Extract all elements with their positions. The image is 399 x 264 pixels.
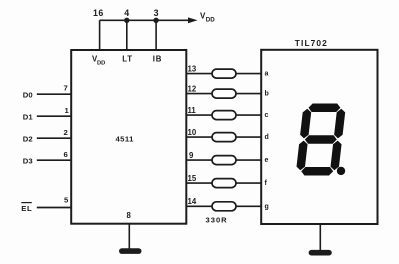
pin label a	[265, 71, 269, 78]
pin number 4	[124, 8, 129, 18]
svg-text:14: 14	[188, 197, 197, 206]
pin label f	[265, 180, 268, 187]
svg-text:16: 16	[93, 8, 104, 18]
wire resistor R5 to segment e	[236, 159, 261, 161]
wire segment f (pin 15 to resistor)	[186, 182, 212, 184]
wire segment c (pin 11 to resistor)	[186, 114, 212, 116]
wire resistor R7 to segment g	[236, 205, 261, 207]
svg-text:c: c	[265, 112, 269, 119]
wire D0	[37, 93, 71, 95]
IC U1 4511 body	[71, 50, 186, 224]
svg-text:1: 1	[65, 106, 70, 115]
wire pin 3 (IB) to VDD rail	[155, 20, 157, 50]
resistor R3	[212, 111, 236, 120]
svg-text:d: d	[265, 134, 269, 141]
wire D2	[37, 137, 71, 139]
pin label e	[265, 157, 269, 164]
svg-text:EL: EL	[21, 204, 32, 213]
svg-text:9: 9	[189, 151, 194, 160]
svg-text:DD: DD	[206, 16, 215, 23]
input D3 label	[23, 156, 33, 165]
pin number 5	[64, 196, 69, 205]
resistor R6	[212, 179, 236, 188]
resistor R5	[212, 156, 236, 165]
input D0 label	[23, 90, 33, 99]
pin number 9	[189, 151, 194, 160]
svg-text:13: 13	[188, 64, 197, 73]
svg-text:D2: D2	[23, 134, 33, 143]
wire pin 16 to VDD rail	[99, 20, 101, 50]
svg-text:12: 12	[188, 84, 197, 93]
junction dot node VDD-IB	[153, 18, 158, 23]
pin label IB inside U1	[153, 54, 162, 63]
svg-text:a: a	[265, 71, 269, 78]
svg-text:D0: D0	[23, 90, 33, 99]
wire segment d (pin 10 to resistor)	[186, 136, 212, 138]
pin number 6	[64, 150, 68, 159]
pin number 12	[188, 84, 197, 93]
svg-text:IB: IB	[153, 54, 162, 63]
svg-text:b: b	[265, 91, 269, 98]
svg-text:LT: LT	[122, 54, 133, 63]
pin label b	[265, 91, 269, 98]
junction dot node VDD-LT	[124, 18, 129, 23]
VDD arrow head	[188, 17, 198, 23]
wire segment g (pin 14 to resistor)	[186, 205, 212, 207]
resistor R4	[212, 133, 236, 142]
svg-text:g: g	[265, 203, 269, 210]
pin label VDD inside U1	[92, 55, 105, 67]
svg-text:DD: DD	[97, 60, 105, 66]
wire resistor R2 to segment b	[236, 93, 261, 95]
wire D3	[37, 159, 71, 161]
pin label g	[265, 203, 269, 210]
input EL label with overline	[21, 203, 32, 213]
svg-text:330R: 330R	[206, 216, 228, 225]
wire EL	[37, 207, 71, 209]
pin number 13	[188, 64, 197, 73]
wire pin 4 (LT) to VDD rail	[126, 20, 128, 50]
svg-text:3: 3	[154, 8, 159, 18]
svg-text:TIL702: TIL702	[295, 38, 328, 48]
wire segment a (pin 13 to resistor)	[186, 73, 212, 75]
pin number 1	[65, 106, 70, 115]
resistor R1	[212, 69, 236, 78]
decimal point DP	[337, 167, 345, 175]
IC U1 label 4511	[116, 135, 135, 144]
pin number 2	[64, 128, 68, 137]
pin number 7	[64, 84, 68, 93]
value label 330R	[206, 216, 228, 225]
svg-text:7: 7	[64, 84, 68, 93]
wire segment e (pin 9 to resistor)	[186, 159, 212, 161]
pin label c	[265, 112, 269, 119]
wire display common to ground	[319, 224, 321, 251]
ground symbol U1	[119, 248, 142, 254]
resistor R2	[212, 89, 236, 98]
wire resistor R4 to segment d	[236, 136, 261, 138]
seven segment digit 8 with decimal point	[295, 104, 346, 176]
svg-text:8: 8	[127, 211, 132, 220]
pin number 8	[127, 211, 132, 220]
ground symbol U2	[309, 250, 332, 256]
display U2 TIL702 body	[261, 50, 377, 224]
svg-text:2: 2	[64, 128, 68, 137]
wire pin 8 to ground	[128, 224, 130, 249]
input D2 label	[23, 134, 33, 143]
svg-text:10: 10	[188, 128, 197, 137]
VDD top rail wire	[100, 19, 190, 21]
resistor R7	[212, 202, 236, 211]
pin number 10	[188, 128, 197, 137]
wire resistor R6 to segment f	[236, 182, 261, 184]
pin label d	[265, 134, 269, 141]
pin number 15	[188, 174, 197, 183]
net label VDD	[200, 12, 215, 24]
wire segment b (pin 12 to resistor)	[186, 93, 212, 95]
svg-text:4511: 4511	[116, 135, 135, 144]
pin number 14	[188, 197, 197, 206]
pin number 16	[93, 8, 104, 18]
svg-text:4: 4	[124, 8, 129, 18]
svg-text:11: 11	[188, 106, 197, 115]
display U2 label TIL702	[295, 38, 328, 48]
svg-text:5: 5	[64, 196, 69, 205]
svg-text:D3: D3	[23, 156, 33, 165]
svg-text:15: 15	[188, 174, 197, 183]
svg-text:6: 6	[64, 150, 68, 159]
svg-text:D1: D1	[23, 112, 34, 121]
wire D1	[37, 115, 71, 117]
input D1 label	[23, 112, 34, 121]
pin label LT inside U1	[122, 54, 133, 63]
pin number 11	[188, 106, 197, 115]
pin number 3	[154, 8, 159, 18]
svg-text:e: e	[265, 157, 269, 164]
wire resistor R1 to segment a	[236, 73, 261, 75]
wire resistor R3 to segment c	[236, 114, 261, 116]
